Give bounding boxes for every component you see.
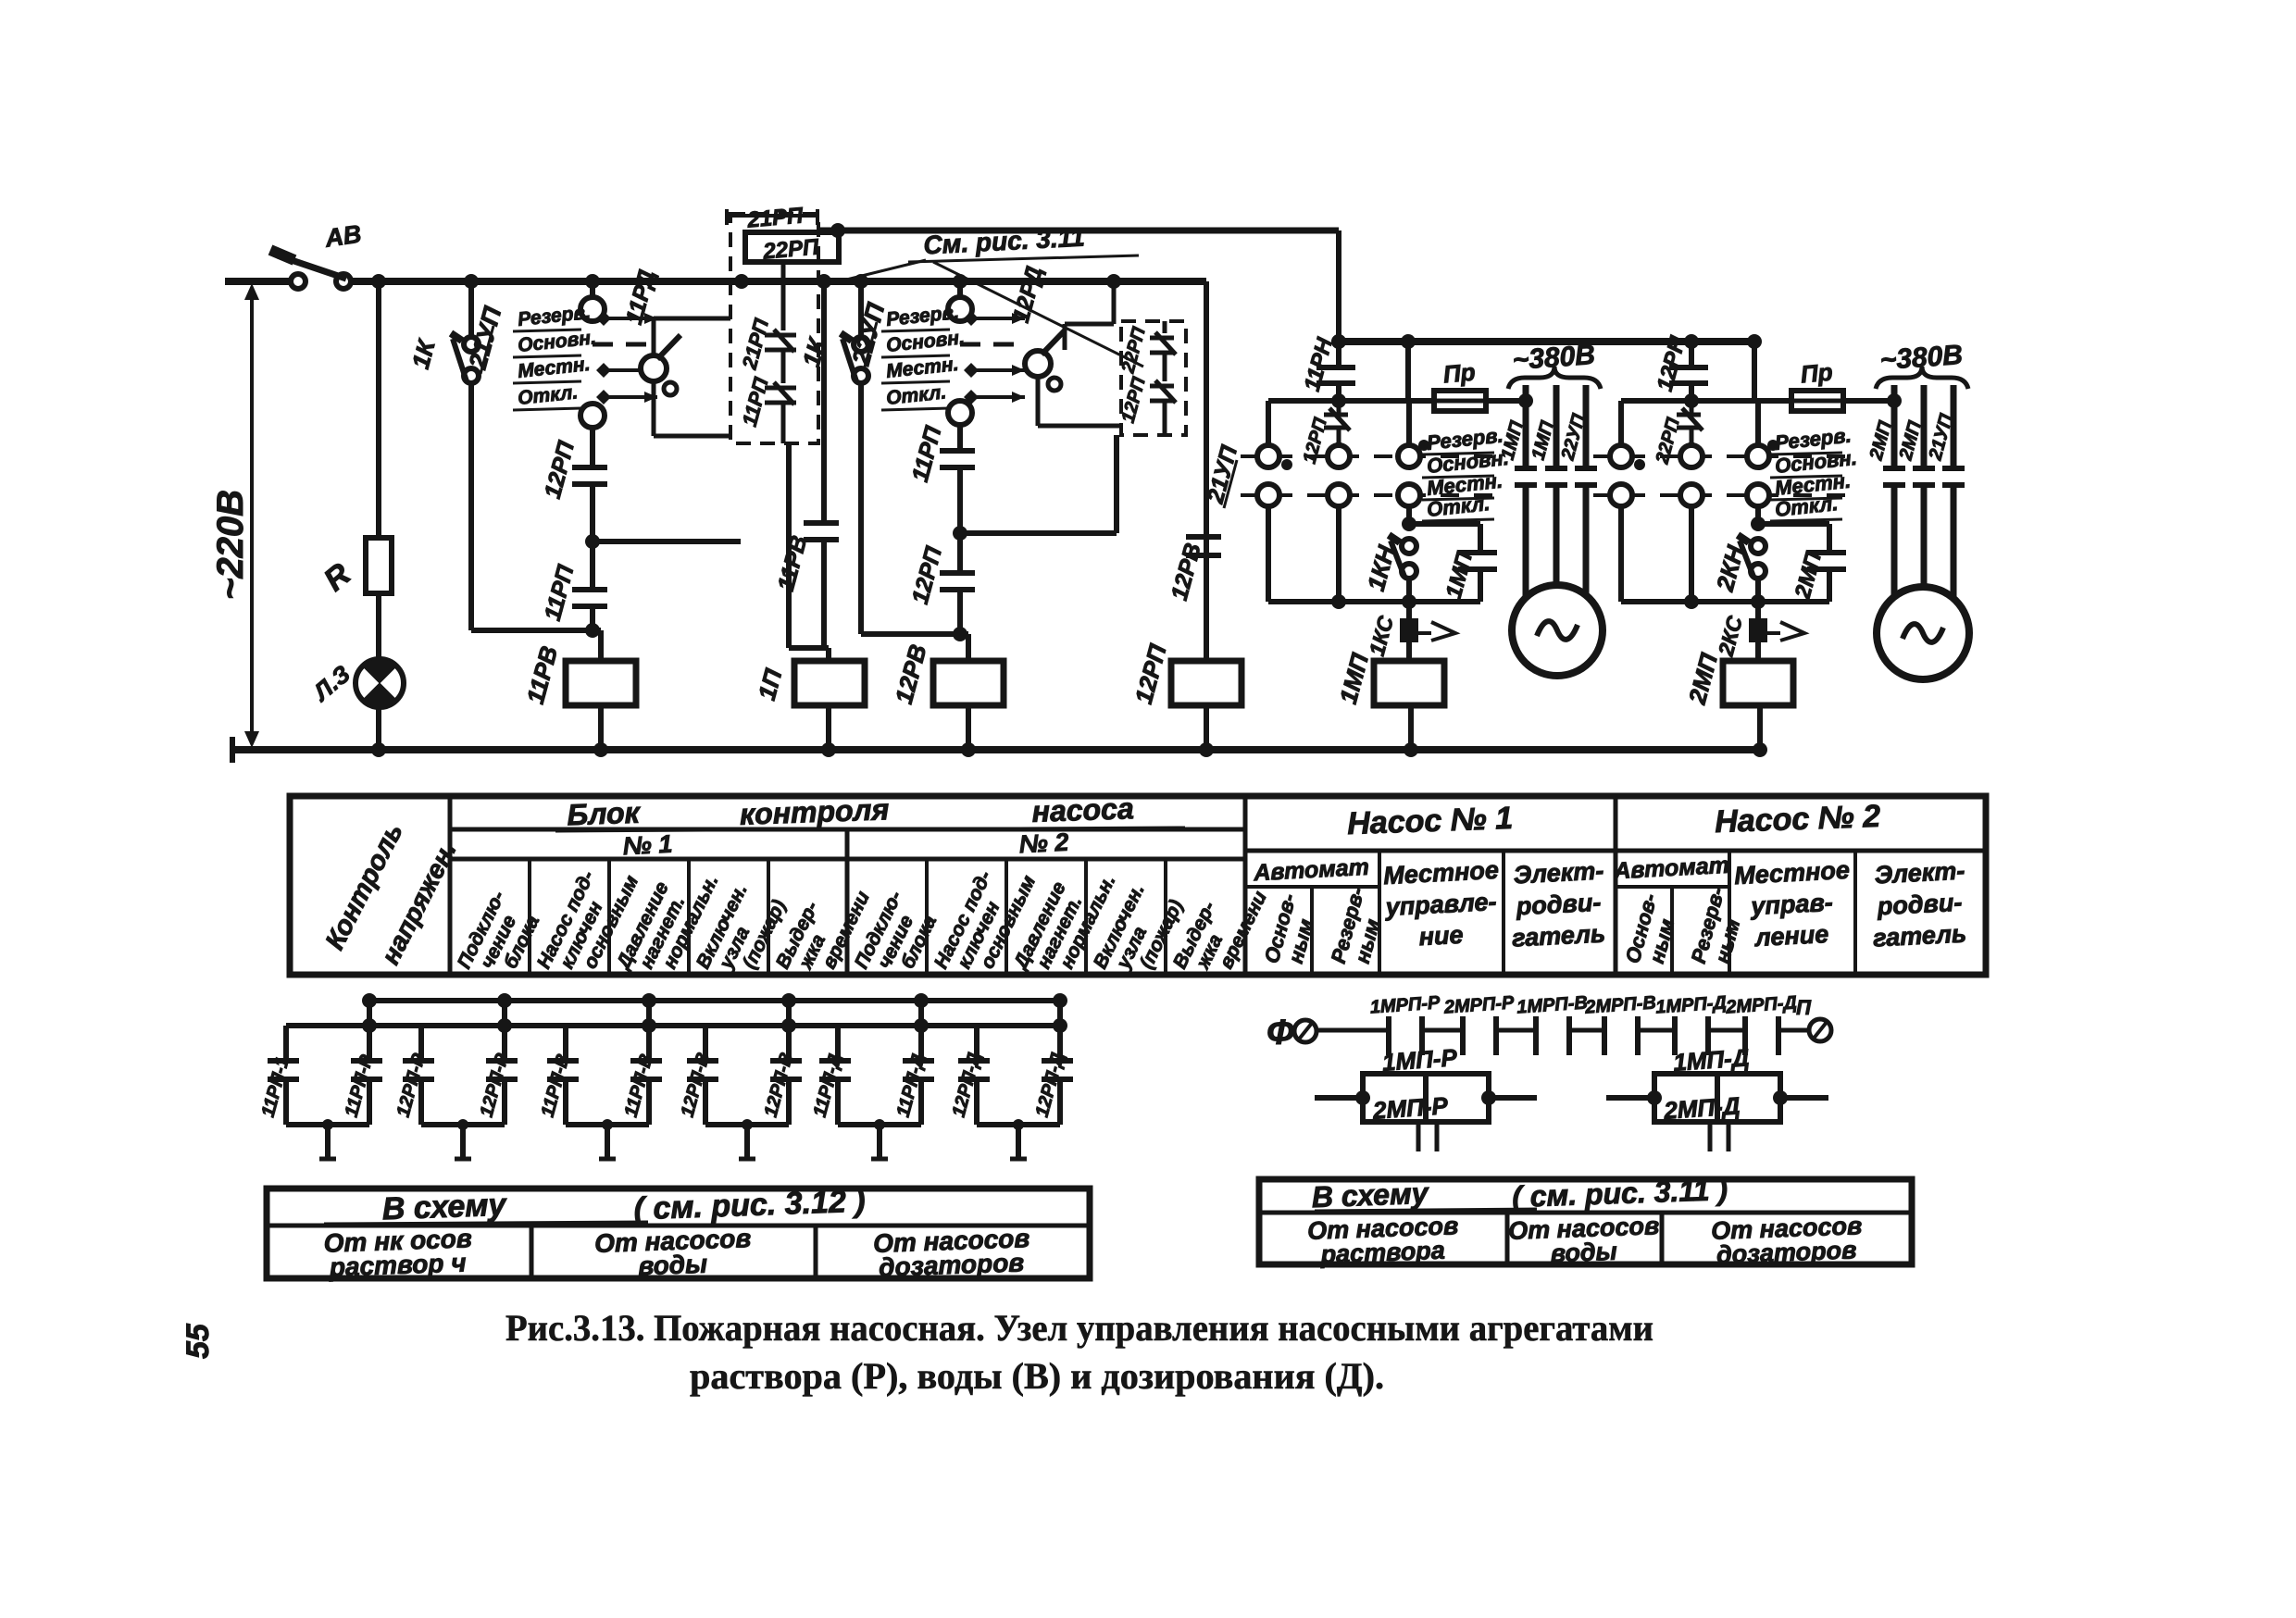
svg-text:управ-: управ-	[1749, 889, 1834, 921]
svg-text:В схему: В схему	[381, 1188, 508, 1227]
svg-text:управле-: управле-	[1383, 888, 1497, 921]
svg-text:В схему: В схему	[1311, 1176, 1430, 1213]
svg-text:родви-: родви-	[1876, 889, 1963, 921]
svg-text:гатель: гатель	[1511, 919, 1605, 952]
svg-text:ление: ление	[1753, 920, 1829, 952]
svg-text:воды: воды	[638, 1250, 708, 1281]
svg-text:Элект-: Элект-	[1513, 856, 1604, 889]
svg-text:~220В: ~220В	[210, 490, 251, 600]
svg-text:раствора (Р), воды (В) и дозир: раствора (Р), воды (В) и дозирования (Д)…	[690, 1355, 1384, 1397]
svg-text:№ 1: № 1	[622, 830, 673, 861]
svg-text:насоса: насоса	[1031, 791, 1134, 828]
svg-text:Пр: Пр	[1800, 358, 1834, 389]
svg-text:1МП-Д: 1МП-Д	[1672, 1043, 1750, 1077]
svg-text:контроля: контроля	[739, 792, 890, 831]
svg-text:родви-: родви-	[1515, 889, 1602, 921]
svg-text:Насос № 2: Насос № 2	[1715, 799, 1881, 840]
svg-text:№ 2: № 2	[1018, 828, 1069, 859]
svg-text:Насос № 1: Насос № 1	[1347, 801, 1514, 841]
svg-text:гатель: гатель	[1872, 919, 1966, 952]
svg-text:ние: ние	[1418, 921, 1464, 951]
svg-text:раствор ч: раствор ч	[328, 1248, 467, 1281]
svg-text:дозаторов: дозаторов	[879, 1248, 1025, 1281]
svg-text:дозаторов: дозаторов	[1716, 1236, 1856, 1268]
svg-text:АВ: АВ	[322, 220, 363, 253]
svg-text:21РП: 21РП	[745, 203, 805, 232]
svg-text:22РП: 22РП	[761, 234, 820, 264]
svg-text:Ф: Ф	[1267, 1014, 1294, 1052]
svg-text:воды: воды	[1550, 1238, 1617, 1267]
svg-text:Пр: Пр	[1442, 358, 1477, 389]
svg-text:2МП-Д: 2МП-Д	[1662, 1091, 1741, 1125]
svg-text:Элект-: Элект-	[1874, 856, 1965, 889]
svg-text:Блок: Блок	[567, 796, 642, 832]
svg-text:1МП-Р: 1МП-Р	[1381, 1043, 1458, 1077]
svg-text:раствора: раствора	[1319, 1237, 1445, 1269]
svg-text:Рис.3.13. Пожарная насосная. У: Рис.3.13. Пожарная насосная. Узел управл…	[505, 1307, 1653, 1349]
svg-text:2МП-Р: 2МП-Р	[1371, 1091, 1449, 1125]
svg-text:П: П	[1796, 996, 1812, 1019]
svg-text:55: 55	[181, 1323, 216, 1359]
